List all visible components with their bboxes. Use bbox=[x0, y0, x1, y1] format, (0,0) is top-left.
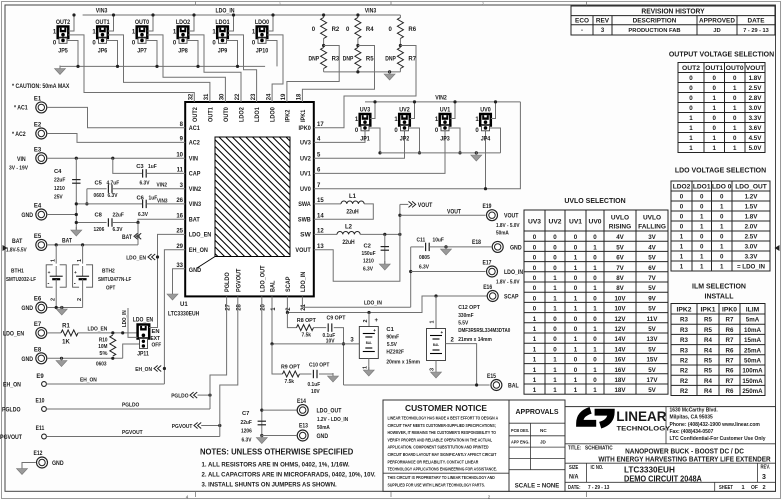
svg-text:0: 0 bbox=[700, 204, 704, 211]
svg-text:R6: R6 bbox=[726, 327, 734, 334]
svg-text:0: 0 bbox=[689, 85, 693, 92]
wire JP4 center to U1 UV0 bbox=[314, 131, 486, 189]
junction VIN3 rail R4 bbox=[356, 13, 359, 16]
svg-text:22uF: 22uF bbox=[241, 420, 253, 426]
ground (C11) bbox=[441, 246, 452, 255]
svg-text:EH_ON: EH_ON bbox=[189, 247, 208, 254]
wire JP7 pin0 to ground rail bbox=[146, 41, 157, 67]
svg-text:32: 32 bbox=[189, 93, 195, 100]
svg-text:AC2: AC2 bbox=[189, 140, 200, 147]
wire C12 top stub bbox=[435, 296, 437, 329]
wire divider ground rail bbox=[324, 71, 401, 73]
wire E12 gnd bbox=[22, 463, 36, 469]
junction JP7 pin0 rail bbox=[155, 65, 158, 68]
wire JP4 pin0 to gnd rail bbox=[490, 128, 501, 153]
svg-text:0603: 0603 bbox=[96, 362, 107, 368]
svg-text:R7: R7 bbox=[726, 337, 734, 344]
junction VIN/C4 bbox=[75, 157, 78, 160]
svg-text:7V: 7V bbox=[648, 275, 656, 282]
svg-text:1: 1 bbox=[680, 264, 684, 271]
svg-text:0: 0 bbox=[574, 244, 578, 251]
capacitor C1 (supercap) bbox=[359, 327, 378, 359]
wire R8 to C9 bbox=[314, 327, 327, 329]
svg-text:1: 1 bbox=[533, 387, 537, 394]
svg-text:HZ202F: HZ202F bbox=[386, 350, 404, 356]
svg-text:APP ENG.: APP ENG. bbox=[511, 440, 529, 445]
svg-text:5V: 5V bbox=[648, 387, 656, 394]
svg-text:R3: R3 bbox=[680, 317, 688, 324]
junction divider gnd 2 bbox=[388, 70, 391, 73]
svg-text:1: 1 bbox=[533, 346, 537, 353]
svg-text:C11: C11 bbox=[417, 237, 426, 243]
junction JP2 gnd rail bbox=[418, 151, 421, 154]
svg-text:0: 0 bbox=[533, 234, 537, 241]
svg-text:UV1: UV1 bbox=[569, 219, 582, 226]
svg-text:1: 1 bbox=[553, 367, 557, 374]
wire VIN3 to R6 bbox=[399, 15, 401, 18]
svg-text:R4: R4 bbox=[704, 347, 712, 354]
svg-text:250mA: 250mA bbox=[742, 388, 763, 395]
resistor R8 bbox=[297, 325, 314, 331]
junction BAT chevron bbox=[136, 235, 139, 238]
connector E8 (GND) bbox=[36, 353, 47, 364]
svg-text:90mF: 90mF bbox=[386, 335, 399, 341]
svg-text:BAT: BAT bbox=[12, 238, 22, 245]
svg-text:2.8V: 2.8V bbox=[749, 95, 763, 102]
capacitor C10 bbox=[313, 370, 317, 378]
svg-text:E8: E8 bbox=[34, 347, 42, 353]
wire U1 GND pin 33 bbox=[173, 269, 186, 294]
svg-text:JP1: JP1 bbox=[360, 135, 370, 142]
svg-text:-: - bbox=[581, 28, 583, 34]
capacitor C9 bbox=[328, 323, 332, 331]
wire JP6 center to U1 bbox=[108, 35, 210, 102]
wire JP10 center to U1 bbox=[267, 35, 283, 102]
svg-text:VOUT: VOUT bbox=[504, 213, 519, 220]
svg-text:E19: E19 bbox=[483, 204, 493, 210]
svg-text:OPT: OPT bbox=[106, 286, 116, 292]
svg-text:R6: R6 bbox=[408, 27, 416, 33]
resistor R10 bbox=[110, 335, 116, 356]
svg-text:30: 30 bbox=[220, 93, 226, 100]
junction JP7 pin1 rail bbox=[151, 13, 154, 16]
svg-text:1: 1 bbox=[733, 85, 737, 92]
svg-text:TECHNOLOGY: TECHNOLOGY bbox=[617, 426, 671, 433]
svg-text:LDO_EN: LDO_EN bbox=[3, 330, 25, 337]
svg-text:PGLDO: PGLDO bbox=[122, 402, 140, 408]
svg-text:SWA: SWA bbox=[298, 201, 311, 208]
net label LDO_EN chevrons mid bbox=[126, 254, 155, 261]
svg-text:22uF: 22uF bbox=[54, 178, 66, 184]
wire U1 PGVOUT pin 28 bbox=[220, 296, 238, 436]
svg-text:6.3V: 6.3V bbox=[363, 266, 373, 272]
svg-text:0: 0 bbox=[574, 275, 578, 282]
svg-text:IPK1: IPK1 bbox=[701, 307, 716, 314]
svg-text:LTC3330EUH: LTC3330EUH bbox=[624, 465, 675, 474]
svg-text:LDO_EN: LDO_EN bbox=[88, 327, 108, 333]
svg-text:0: 0 bbox=[712, 125, 716, 132]
svg-text:12V: 12V bbox=[615, 326, 627, 333]
wire L1 to SWB bbox=[314, 204, 374, 219]
svg-text:E12: E12 bbox=[34, 451, 44, 457]
svg-text:0: 0 bbox=[720, 254, 724, 261]
svg-text:LDO 0: LDO 0 bbox=[712, 184, 732, 191]
wire JP7 pin1 to rail bbox=[148, 15, 154, 31]
svg-text:E4: E4 bbox=[34, 203, 42, 209]
wire E8 gnd bbox=[48, 357, 123, 359]
wire R9 to C10 bbox=[300, 373, 312, 375]
svg-text:14V: 14V bbox=[615, 346, 627, 353]
wire JP5 center to U1 bbox=[68, 35, 194, 102]
svg-text:0: 0 bbox=[720, 214, 724, 221]
connector E5 (BAT) bbox=[36, 239, 47, 250]
svg-text:IC NO.: IC NO. bbox=[591, 465, 604, 471]
svg-text:VIN3: VIN3 bbox=[96, 8, 108, 15]
svg-text:0: 0 bbox=[733, 75, 737, 82]
svg-text:OUT1: OUT1 bbox=[95, 19, 110, 26]
svg-text:VIN2: VIN2 bbox=[189, 186, 202, 193]
svg-text:1: 1 bbox=[553, 387, 557, 394]
junction UV0/VIN2 tie bbox=[484, 187, 487, 190]
svg-text:PERFORMANCE OR RELIABILITY.: PERFORMANCE OR RELIABILITY. CONTACT LINE… bbox=[388, 459, 479, 464]
svg-text:E9: E9 bbox=[36, 374, 44, 380]
junction JP9 pin1 rail bbox=[232, 13, 235, 16]
connector E17 (LDO_IN) bbox=[487, 266, 498, 277]
svg-text:1210: 1210 bbox=[54, 186, 65, 192]
svg-text:SMTU2032-LF: SMTU2032-LF bbox=[6, 277, 37, 283]
svg-text:5V: 5V bbox=[648, 285, 656, 292]
svg-text:3V: 3V bbox=[648, 234, 656, 241]
title block title text bbox=[568, 445, 771, 463]
connector E16 (SCAP) bbox=[487, 291, 498, 302]
svg-text:OUT0: OUT0 bbox=[135, 19, 150, 26]
svg-text:1: 1 bbox=[574, 336, 578, 343]
jumper body JP4 bbox=[480, 114, 491, 131]
capacitor C4 bbox=[72, 180, 80, 184]
svg-text:E13: E13 bbox=[299, 424, 309, 430]
svg-text:23: 23 bbox=[251, 93, 257, 100]
svg-text:5V: 5V bbox=[648, 367, 656, 374]
svg-text:13V: 13V bbox=[647, 336, 659, 343]
svg-text:0: 0 bbox=[593, 295, 597, 302]
svg-text:+: + bbox=[375, 318, 379, 324]
title block part info bbox=[568, 464, 770, 490]
wire BAT bus bbox=[48, 244, 138, 246]
junction R6/R7 bbox=[399, 44, 402, 47]
svg-text:0: 0 bbox=[593, 275, 597, 282]
svg-text:R4: R4 bbox=[366, 27, 374, 33]
table: output voltage selection bbox=[669, 50, 774, 153]
svg-text:R3: R3 bbox=[332, 57, 340, 63]
svg-text:R5: R5 bbox=[704, 317, 712, 324]
svg-text:LDO_OUT: LDO_OUT bbox=[735, 184, 767, 191]
svg-text:0: 0 bbox=[574, 234, 578, 241]
svg-text:0603: 0603 bbox=[94, 193, 105, 199]
svg-text:1: 1 bbox=[593, 306, 597, 313]
svg-text:0: 0 bbox=[553, 326, 557, 333]
svg-text:26: 26 bbox=[176, 198, 183, 204]
svg-text:0: 0 bbox=[593, 316, 597, 323]
svg-text:LDO1: LDO1 bbox=[693, 184, 711, 191]
wire VIN3 to R2 bbox=[323, 15, 325, 18]
svg-text:1: 1 bbox=[533, 357, 537, 364]
svg-text:8V: 8V bbox=[616, 285, 624, 292]
svg-text:IPK1: IPK1 bbox=[300, 109, 307, 122]
svg-text:1: 1 bbox=[712, 145, 716, 152]
wire SWA to L1 bbox=[314, 203, 341, 205]
junction BTH2 bbox=[81, 243, 84, 246]
svg-text:REVISION HISTORY: REVISION HISTORY bbox=[641, 8, 705, 15]
svg-text:1. ALL RESISTORS ARE IN OHMS,: 1. ALL RESISTORS ARE IN OHMS, 0402, 1%, … bbox=[202, 462, 350, 468]
junction VOUT/E19 bbox=[398, 214, 401, 217]
svg-text:1.8V - 5.0V: 1.8V - 5.0V bbox=[496, 223, 520, 229]
wire JP9 pin0 to ground rail bbox=[227, 41, 238, 67]
junction R4/R5 bbox=[356, 44, 359, 47]
svg-text:GND: GND bbox=[317, 433, 329, 440]
svg-text:4V: 4V bbox=[648, 244, 656, 251]
svg-text:GND: GND bbox=[52, 460, 64, 467]
svg-text:GND: GND bbox=[21, 356, 33, 363]
resistor R5 (DNP) bbox=[355, 48, 361, 69]
table: ILM selection bbox=[671, 282, 765, 396]
svg-text:2: 2 bbox=[762, 485, 765, 491]
svg-text:BAT: BAT bbox=[189, 217, 200, 224]
wire PGVOUT chevron stub bbox=[201, 425, 220, 427]
wire JP2 pin1 to VIN2 rail bbox=[410, 102, 415, 119]
svg-text:VERIFY PROPER AND RELIABLE OPE: VERIFY PROPER AND RELIABLE OPERATION IN … bbox=[388, 437, 493, 442]
svg-text:0: 0 bbox=[553, 265, 557, 272]
junction JP8 pin1 rail bbox=[192, 13, 195, 16]
junction VIN/C3 bbox=[111, 157, 114, 160]
jumper JP11 (LDO_EN select) bbox=[138, 325, 150, 349]
wire C12 bottom stub bbox=[435, 361, 437, 373]
svg-text:150uF: 150uF bbox=[362, 251, 376, 257]
svg-text:1: 1 bbox=[593, 285, 597, 292]
svg-text:OUT1: OUT1 bbox=[705, 65, 723, 72]
svg-text:UVLO: UVLO bbox=[611, 215, 629, 222]
net label EH_ON chevrons bbox=[135, 366, 161, 374]
svg-text:1: 1 bbox=[720, 224, 724, 231]
svg-text:OUT2: OUT2 bbox=[682, 65, 700, 72]
U1 pin labels bbox=[168, 93, 324, 318]
wire LDO_IN to C11 bbox=[411, 246, 424, 248]
svg-text:N/A: N/A bbox=[569, 474, 579, 481]
ground (top jumper rail) bbox=[55, 66, 66, 75]
jumper body JP1 bbox=[360, 114, 371, 131]
svg-text:JP5: JP5 bbox=[58, 48, 68, 55]
svg-text:1: 1 bbox=[689, 125, 693, 132]
wire AC1 to U1 pin 8 bbox=[47, 107, 185, 127]
svg-text:7.5k: 7.5k bbox=[302, 333, 312, 339]
wire LDO_IN to E17 bbox=[411, 271, 486, 273]
svg-text:C7: C7 bbox=[242, 411, 249, 417]
svg-text:15: 15 bbox=[317, 198, 324, 204]
svg-text:C2: C2 bbox=[364, 244, 371, 250]
svg-text:25mA: 25mA bbox=[744, 347, 761, 354]
svg-text:0: 0 bbox=[553, 244, 557, 251]
junction JP1 gnd rail bbox=[378, 151, 381, 154]
svg-text:JP4: JP4 bbox=[481, 135, 491, 142]
svg-text:31: 31 bbox=[204, 93, 210, 100]
svg-text:1: 1 bbox=[720, 204, 724, 211]
junction VOUT node bbox=[398, 233, 401, 236]
svg-text:1: 1 bbox=[741, 485, 744, 491]
svg-text:DNP: DNP bbox=[385, 57, 396, 63]
wire E4 to ground bbox=[48, 214, 77, 216]
wire JP1 pin0 to gnd rail bbox=[369, 128, 380, 153]
wire E10 PGLDO bbox=[46, 408, 210, 410]
capacitor C5 bbox=[108, 185, 112, 193]
svg-text:E3: E3 bbox=[34, 147, 42, 153]
svg-text:0: 0 bbox=[533, 275, 537, 282]
wire AC2 to U1 pin 9 bbox=[47, 134, 185, 143]
junction E8 gnd sym bbox=[60, 357, 63, 360]
junction C12 top bbox=[434, 294, 437, 297]
svg-text:THIS CIRCUIT IS PROPRIETARY TO: THIS CIRCUIT IS PROPRIETARY TO LINEAR TE… bbox=[388, 475, 496, 480]
svg-text:LDO2: LDO2 bbox=[176, 19, 191, 26]
svg-text:JP11: JP11 bbox=[137, 352, 149, 358]
wire JP5 pin0 to ground rail bbox=[67, 41, 78, 67]
svg-text:5V: 5V bbox=[648, 255, 656, 262]
wire C9 to BAL drop bbox=[334, 328, 344, 385]
svg-text:5.0V: 5.0V bbox=[749, 145, 763, 152]
wire JP7 center to U1 bbox=[147, 35, 225, 102]
svg-text:C4: C4 bbox=[54, 169, 62, 175]
Linear Technology logo bbox=[580, 408, 671, 433]
wire JP8 pin1 to rail bbox=[189, 15, 195, 31]
junction E4 gnd bbox=[75, 213, 78, 216]
svg-text:0: 0 bbox=[533, 255, 537, 262]
svg-text:GND: GND bbox=[21, 305, 33, 312]
ground rail below top jumpers bbox=[60, 65, 265, 67]
svg-text:R3: R3 bbox=[680, 337, 688, 344]
svg-text:PGVOUT: PGVOUT bbox=[172, 424, 193, 430]
svg-text:E16: E16 bbox=[483, 285, 493, 291]
svg-text:PCB DES.: PCB DES. bbox=[511, 428, 529, 433]
svg-text:7V: 7V bbox=[616, 265, 624, 272]
svg-text:0: 0 bbox=[574, 367, 578, 374]
svg-text:22uF: 22uF bbox=[113, 213, 125, 219]
svg-text:LINEAR: LINEAR bbox=[616, 408, 666, 424]
svg-text:18V: 18V bbox=[615, 377, 627, 384]
svg-text:0: 0 bbox=[689, 95, 693, 102]
svg-text:1: 1 bbox=[50, 259, 56, 262]
wire C3 to U1 CAP pin 11 bbox=[146, 172, 185, 174]
svg-text:C6: C6 bbox=[137, 195, 145, 201]
svg-text:DESCRIPTION: DESCRIPTION bbox=[633, 17, 677, 24]
svg-text:17: 17 bbox=[317, 122, 324, 128]
svg-text:1.8V-5.5V: 1.8V-5.5V bbox=[6, 248, 27, 254]
svg-text:0.1uF: 0.1uF bbox=[308, 382, 321, 388]
svg-text:-: - bbox=[74, 282, 76, 288]
svg-text:22uH: 22uH bbox=[342, 240, 354, 246]
svg-text:R2: R2 bbox=[680, 388, 688, 395]
junction JP2 VIN2 bbox=[413, 100, 416, 103]
ground (battery) bbox=[56, 306, 67, 315]
svg-text:0: 0 bbox=[574, 316, 578, 323]
connector E6 (GND) bbox=[36, 302, 47, 313]
svg-text:3: 3 bbox=[762, 474, 766, 481]
svg-text:RISING: RISING bbox=[609, 224, 631, 231]
svg-text:LDO VOLTAGE SELECTION: LDO VOLTAGE SELECTION bbox=[675, 166, 766, 175]
wire JP11 EXT to LDO_IN bbox=[128, 308, 138, 337]
junction C4/C6 bbox=[75, 202, 78, 205]
junction gnd sym bbox=[60, 306, 63, 309]
svg-text:JD: JD bbox=[540, 440, 547, 445]
svg-text:1: 1 bbox=[553, 285, 557, 292]
svg-text:22uH: 22uH bbox=[346, 210, 358, 216]
svg-text:0: 0 bbox=[700, 234, 704, 241]
svg-text:VIN: VIN bbox=[17, 156, 26, 163]
svg-text:LDO_IN: LDO_IN bbox=[364, 301, 382, 307]
svg-text:0: 0 bbox=[553, 255, 557, 262]
svg-text:1: 1 bbox=[700, 264, 704, 271]
wire BAT riser bbox=[137, 223, 139, 245]
svg-text:1: 1 bbox=[553, 357, 557, 364]
svg-text:VIN: VIN bbox=[189, 156, 198, 163]
svg-text:0: 0 bbox=[700, 244, 704, 251]
svg-text:50mA: 50mA bbox=[744, 358, 761, 365]
svg-text:VOUT: VOUT bbox=[746, 65, 766, 72]
svg-text:R4: R4 bbox=[704, 378, 712, 385]
svg-text:LDO_EN: LDO_EN bbox=[126, 255, 146, 261]
svg-text:SCAP: SCAP bbox=[285, 276, 292, 292]
connector E10 (PGLDO) bbox=[42, 407, 47, 412]
svg-text:1.5V: 1.5V bbox=[745, 204, 759, 211]
svg-text:1: 1 bbox=[700, 224, 704, 231]
svg-text:U1: U1 bbox=[180, 302, 188, 308]
wire U1 PGLDO pin 27 bbox=[210, 296, 227, 409]
svg-text:BTH2: BTH2 bbox=[102, 269, 115, 275]
svg-text:1: 1 bbox=[574, 306, 578, 313]
svg-text:OUT0: OUT0 bbox=[223, 107, 230, 122]
svg-text:R3: R3 bbox=[680, 327, 688, 334]
resistor R3 (DNP) bbox=[321, 48, 327, 69]
svg-text:0: 0 bbox=[553, 346, 557, 353]
svg-text:12V: 12V bbox=[615, 316, 627, 323]
svg-text:5.5V: 5.5V bbox=[458, 320, 468, 326]
svg-text:E6: E6 bbox=[34, 297, 42, 303]
svg-text:TITLE:: TITLE: bbox=[568, 445, 581, 451]
svg-text:LDO2: LDO2 bbox=[673, 184, 691, 191]
svg-text:13: 13 bbox=[317, 244, 324, 250]
svg-text:0: 0 bbox=[574, 357, 578, 364]
junction JP3 gnd rail bbox=[458, 151, 461, 154]
svg-text:Phone: (408)432-1900 www.line: Phone: (408)432-1900 www.linear.com bbox=[670, 422, 761, 428]
svg-text:0: 0 bbox=[712, 115, 716, 122]
svg-text:LDO1: LDO1 bbox=[254, 107, 261, 122]
svg-text:VIN3: VIN3 bbox=[365, 8, 377, 15]
svg-text:DATE: DATE bbox=[748, 17, 766, 24]
svg-text:JP3: JP3 bbox=[440, 135, 450, 142]
svg-text:BAT: BAT bbox=[122, 235, 132, 241]
wire JP3 pin1 to VIN2 rail bbox=[450, 102, 455, 119]
svg-text:5V: 5V bbox=[648, 326, 656, 333]
svg-text:R2: R2 bbox=[680, 368, 688, 375]
svg-text:TECHNOLOGY APPLICATIONS ENGINE: TECHNOLOGY APPLICATIONS ENGINEERING FOR … bbox=[388, 467, 498, 472]
jumper body JP10 bbox=[257, 27, 268, 44]
svg-text:R4: R4 bbox=[704, 388, 712, 395]
inductor L2 bbox=[337, 231, 360, 234]
svg-text:R8 OPT: R8 OPT bbox=[297, 318, 316, 324]
svg-text:5V: 5V bbox=[648, 306, 656, 313]
ground (E8) bbox=[56, 358, 67, 367]
svg-text:0: 0 bbox=[680, 194, 684, 201]
wire U1 SCAP pin 2 to E16 bbox=[287, 296, 487, 313]
svg-text:3.0V: 3.0V bbox=[745, 244, 759, 251]
svg-text:E1: E1 bbox=[34, 96, 42, 102]
svg-text:1206: 1206 bbox=[94, 227, 105, 233]
